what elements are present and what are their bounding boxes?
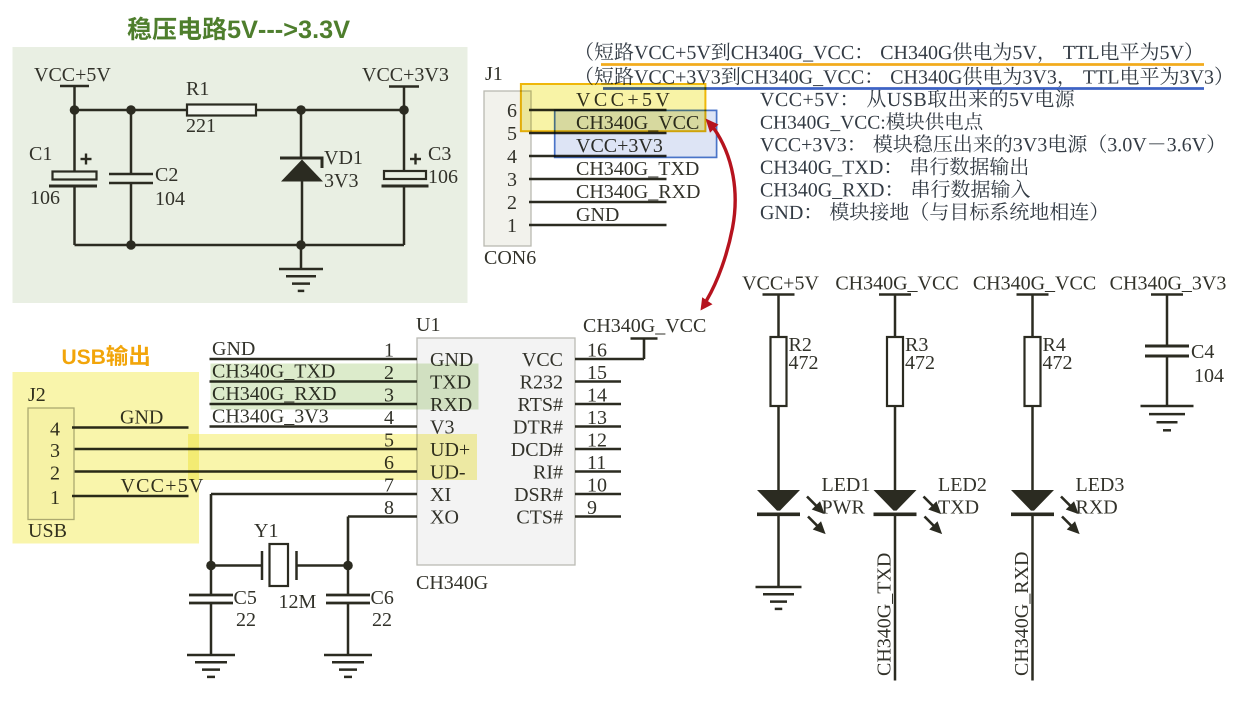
underline yellow (line 1) [601,63,1204,66]
zener diode VD1 3V3 [300,110,303,159]
wire U1 pin 16 VCC to CH340G_VCC flag [575,358,644,361]
wire U1 pin 7 XI to crystal [211,493,417,496]
svg-text:XO: XO [430,507,459,529]
svg-text:CTS#: CTS# [516,507,563,529]
wire J1 pin 1 [529,224,667,227]
connector J2 body [28,408,74,520]
svg-text:472: 472 [1043,352,1073,374]
wire J2 pin 4 GND stub [72,426,189,429]
svg-text:1: 1 [507,215,517,237]
svg-text:104: 104 [1194,365,1224,387]
wire bottom rail [75,244,405,247]
wire J1 pin 6 [529,109,667,112]
node junction VD1/bottom rail [296,240,306,250]
svg-text:DTR#: DTR# [513,417,563,439]
svg-text:RXD: RXD [1076,497,1118,519]
annotation line 1 (yellow underlined) [587,42,1191,63]
wire R3 to LED2 [894,406,897,492]
node junction VD1/top rail [296,105,306,115]
connector J1 body [484,91,531,246]
highlight yellow block over J2 USB area [13,372,200,544]
svg-text:22: 22 [236,609,256,631]
wire U1 pin 15 [575,380,621,383]
node junction C2/top rail [126,105,136,115]
wire U1 pin 8 XO to crystal [348,515,417,518]
LED LED3 [1011,490,1054,511]
annotation line 2 (blue underlined) [587,67,1221,88]
svg-text:GND: GND [212,338,255,360]
svg-text:R232: R232 [520,372,563,394]
wire J1 pin 5 [529,132,667,135]
wire CH340G_VCC to R4 [1031,295,1034,338]
wire U1 pin 10 [575,493,621,496]
svg-text:22: 22 [372,609,392,631]
wire U1 pin 4 [210,425,418,428]
svg-text:106: 106 [428,166,458,188]
highlight green band over CH340G_TXD/RXD rows [211,364,479,410]
LED LED1 [757,490,800,511]
svg-text:C1: C1 [29,143,52,165]
svg-text:106: 106 [30,187,60,209]
wire LED1 to ground [777,514,780,587]
ground (C5) [187,654,235,657]
node junction C1/top rail [70,105,80,115]
highlight blue box over J1 CH340G_VCC/VCC+3V3 [555,110,717,157]
wire U1 pin 12 [575,448,621,451]
svg-text:3V3: 3V3 [324,170,358,192]
svg-text:LED2: LED2 [938,474,987,496]
wire crystal right [297,564,349,567]
wire U1 pin 6 UD- from J2 pin 2 [72,470,418,473]
node junction C3/top rail [399,105,409,115]
capacitor C6 [347,566,350,595]
svg-text:PWR: PWR [822,497,866,519]
capacitor C3 (polarized) [403,110,406,171]
svg-text:TXD: TXD [938,497,979,519]
underline blue (line 2) [603,87,1204,90]
title 稳压电路5V to 3.3V [128,17,350,41]
voltage regulator panel background [13,47,468,303]
ground (C4) [1141,405,1194,408]
wire U1 pin 3 [210,403,418,406]
resistor R4 472 [1025,337,1041,406]
wire LED3 to CH340G_RXD [1031,514,1034,681]
svg-text:4: 4 [507,146,517,168]
svg-text:R1: R1 [186,78,209,100]
svg-text:C3: C3 [428,143,451,165]
svg-text:DSR#: DSR# [514,484,563,506]
red arrow J1 CH340G_VCC to U1 CH340G_VCC net label [701,119,736,311]
svg-text:VCC: VCC [522,349,563,371]
svg-text:CH340G: CH340G [416,572,488,594]
svg-text:VD1: VD1 [324,147,363,169]
svg-text:472: 472 [905,352,935,374]
svg-text:VCC+5V: VCC+5V [742,273,819,295]
ground (LED1) [756,586,802,589]
wire J1 pin 4 [529,155,667,158]
resistor R2 472 [771,337,787,406]
svg-text:5: 5 [507,123,517,145]
svg-text:104: 104 [155,188,185,210]
svg-text:U1: U1 [416,314,440,336]
node junction C2/bottom rail [126,240,136,250]
highlight yellow box over J1 VCC+5V/CH340G_VCC [521,84,706,131]
highlight yellow band over UD+/UD- rows [188,434,477,480]
wire U1 pin 1 [210,358,418,361]
wire R2 to LED1 [777,406,780,492]
IC U1 body [417,338,575,565]
svg-text:CH340G_TXD: CH340G_TXD [576,158,699,180]
node junction XO/crystal/C6 [343,561,353,571]
svg-text:6: 6 [507,100,517,122]
svg-text:CH340G_RXD: CH340G_RXD [1011,552,1033,676]
svg-text:J1: J1 [485,63,503,85]
wire J2 pin 1 VCC+5V stub [72,495,189,498]
svg-text:LED3: LED3 [1076,474,1125,496]
svg-text:RI#: RI# [533,462,563,484]
capacitor C1 (polarized) [73,110,76,172]
svg-text:CH340G_VCC: CH340G_VCC [583,315,706,337]
wire VCC+5V flag to top rail [73,86,76,110]
svg-text:CH340G_VCC: CH340G_VCC [835,273,958,295]
svg-text:2: 2 [507,192,517,214]
wire U1 pin 9 [575,515,621,518]
wire crystal left [211,564,262,567]
wire U1 pin 5 UD+ from J2 pin 3 [72,448,418,451]
svg-text:VCC+3V3: VCC+3V3 [362,64,449,86]
crystal Y1 [261,551,264,580]
label USB输出 [63,345,149,366]
wire VCC+5V to R2 [777,295,780,338]
capacitor C5 [210,566,213,595]
wire C4 to ground [1166,356,1169,406]
svg-text:LED1: LED1 [822,474,871,496]
svg-text:221: 221 [186,115,216,137]
svg-text:RTS#: RTS# [518,394,563,416]
LED LED2 [874,490,917,511]
ground (regulator) [300,245,303,269]
svg-text:CH340G_RXD: CH340G_RXD [576,181,700,203]
svg-text:3: 3 [507,169,517,191]
svg-text:C5: C5 [234,587,257,609]
wire CH340G_VCC to R3 [894,295,897,338]
svg-text:CH340G_VCC: CH340G_VCC [973,273,1096,295]
svg-text:Y1: Y1 [254,520,278,542]
svg-text:GND: GND [576,204,619,226]
svg-text:C2: C2 [155,164,178,186]
resistor R3 472 [887,337,903,406]
wire U1 pin 13 [575,425,621,428]
svg-text:12M: 12M [279,591,317,613]
wire top rail [75,109,405,112]
capacitor C4 104 [1145,345,1189,348]
wire U1 pin 11 [575,470,621,473]
node junction XI/crystal/C5 [206,561,216,571]
svg-text:VCC+5V: VCC+5V [34,64,111,86]
ground (C6) [324,654,372,657]
wire J1 pin 2 [529,201,667,204]
resistor R1 [187,105,256,116]
svg-text:XI: XI [430,484,451,506]
svg-text:CH340G_3V3: CH340G_3V3 [1110,273,1227,295]
svg-text:CH340G_TXD: CH340G_TXD [874,553,896,676]
wire U1 pin 14 [575,403,621,406]
svg-text:CON6: CON6 [484,247,536,269]
svg-text:C6: C6 [371,587,394,609]
wire LED2 to CH340G_TXD [894,514,897,681]
capacitor C2 [130,110,133,173]
wire CH340G_3V3 to C4 [1166,295,1169,346]
wire R4 to LED3 [1031,406,1034,492]
wire J1 pin 3 [529,178,667,181]
svg-text:C4: C4 [1191,341,1214,363]
svg-text:472: 472 [789,352,819,374]
wire U1 pin 2 [210,380,418,383]
svg-text:DCD#: DCD# [511,439,563,461]
